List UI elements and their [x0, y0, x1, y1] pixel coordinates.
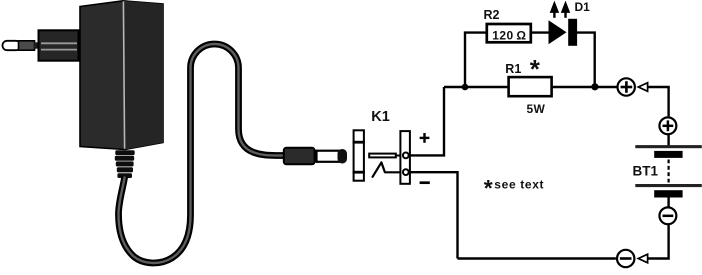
wire + from K1 [409, 87, 444, 155]
svg-text:K1: K1 [371, 109, 390, 125]
svg-text:120 Ω: 120 Ω [492, 29, 526, 43]
svg-text:*: * [484, 175, 493, 201]
connector plug - arrow [638, 254, 647, 263]
K1 terminal block [400, 131, 410, 184]
svg-text:R1: R1 [505, 62, 521, 76]
wire battery - down to rail [648, 225, 669, 259]
battery BT1 [635, 145, 702, 197]
wire LED branch down [576, 33, 595, 87]
svg-text:5W: 5W [527, 102, 546, 116]
wire R2 to D1 [531, 31, 550, 33]
connector socket - [617, 250, 634, 267]
label - [420, 181, 430, 184]
wire - from K1 [409, 172, 458, 258]
connector plug + arrow [638, 83, 647, 92]
mains plug pin [3, 41, 40, 50]
mains plug block [39, 30, 79, 60]
cable [119, 44, 286, 263]
wire main rail [444, 86, 617, 88]
K1 center pin [369, 154, 401, 158]
svg-text:BT1: BT1 [633, 164, 659, 179]
wire battery + [667, 135, 669, 146]
junction right [591, 83, 598, 90]
barrel plug tip [317, 149, 348, 164]
strain relief [115, 150, 135, 178]
barrel plug body [284, 148, 315, 165]
wire plug + to battery [648, 87, 669, 116]
K1 jack sleeve [353, 130, 365, 180]
resistor R2 [487, 24, 531, 43]
resistor R1 [509, 77, 552, 96]
connector socket + [618, 78, 635, 95]
battery - terminal [659, 207, 676, 224]
wire battery - [667, 198, 669, 207]
K1 switch contact [373, 162, 400, 176]
wire R2 branch up [465, 33, 487, 87]
label + [420, 133, 430, 143]
K1 pin terminal [403, 153, 409, 159]
svg-text:see text: see text [494, 178, 544, 192]
battery + terminal [659, 117, 676, 134]
LED D1 [549, 19, 578, 46]
junction left [462, 84, 469, 91]
wire bottom rail [458, 257, 616, 259]
K1 sleeve terminal [403, 169, 409, 175]
D1 light arrows [550, 2, 569, 18]
svg-text:D1: D1 [575, 0, 591, 14]
note see text [484, 175, 545, 201]
adapter body [80, 1, 163, 150]
svg-text:R2: R2 [484, 8, 500, 22]
